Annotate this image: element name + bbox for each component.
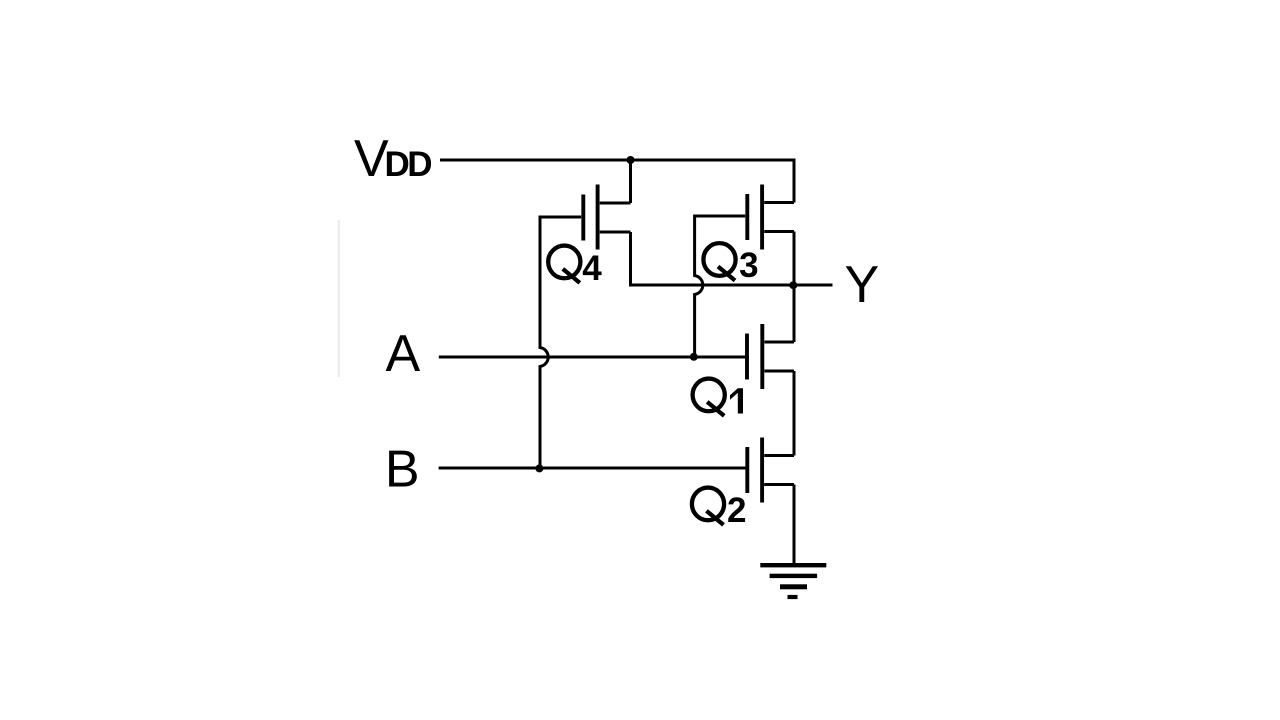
wire Q4 drain riser: [629, 160, 632, 203]
label Q3: [703, 243, 758, 285]
svg-text:Y: Y: [845, 256, 880, 314]
svg-text:A: A: [386, 325, 421, 383]
svg-text:B: B: [385, 441, 420, 499]
ground: [760, 563, 826, 599]
wire Q4 source riser to Y line: [629, 232, 632, 287]
junction dot B / Q4 gate: [535, 464, 543, 472]
transistor Q2: [747, 438, 794, 503]
transistor Q4: [583, 185, 630, 250]
junction dot VDD / Q4 drain: [627, 156, 635, 164]
wire Q3 source riser to Y node: [793, 232, 796, 286]
wire input B line: [439, 467, 746, 470]
svg-text:DD: DD: [385, 145, 432, 184]
transistor Q3: [747, 185, 794, 250]
label Q2: [692, 488, 747, 530]
wire input A line: [439, 356, 745, 359]
wire Q4 gate lead with hop over A line: [540, 217, 581, 468]
svg-text:3: 3: [739, 246, 758, 285]
wire Y node to Q1 drain: [793, 285, 796, 342]
junction dot Y node: [789, 281, 797, 289]
faint watermark line: [338, 220, 341, 377]
svg-text:2: 2: [727, 491, 746, 530]
wire Q2 source to ground: [793, 485, 796, 564]
wire Q3 gate lead with hop over Y line: [695, 216, 746, 357]
label Q1: [693, 379, 743, 416]
label Q4: [548, 246, 602, 288]
wire Q1 source to Q2 drain: [793, 371, 796, 456]
net label VDD: [354, 130, 431, 188]
junction dot A / Q3 gate: [690, 353, 698, 361]
transistor Q1: [747, 324, 794, 389]
svg-text:4: 4: [582, 249, 602, 288]
wire VDD rail: [440, 160, 794, 203]
wire output Y line: [629, 284, 833, 287]
